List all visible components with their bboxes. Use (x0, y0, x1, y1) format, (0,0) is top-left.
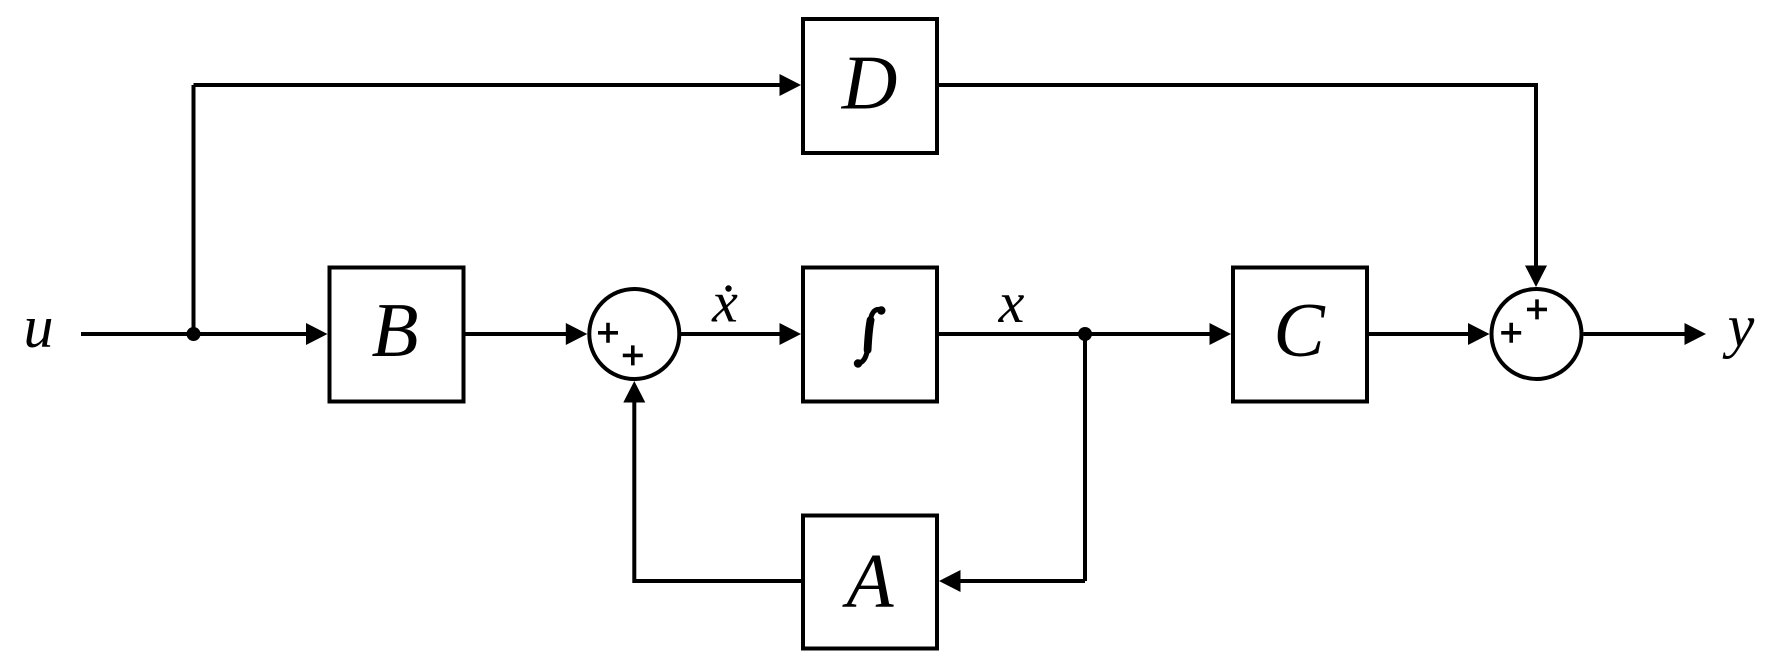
svg-text:x: x (711, 270, 738, 335)
svg-text:y: y (1722, 293, 1755, 359)
svg-text:u: u (24, 294, 54, 360)
svg-text:x: x (998, 270, 1025, 335)
svg-text:A: A (841, 538, 894, 624)
svg-text:D: D (841, 40, 898, 126)
svg-text:C: C (1273, 287, 1326, 373)
svg-text:B: B (371, 287, 418, 373)
